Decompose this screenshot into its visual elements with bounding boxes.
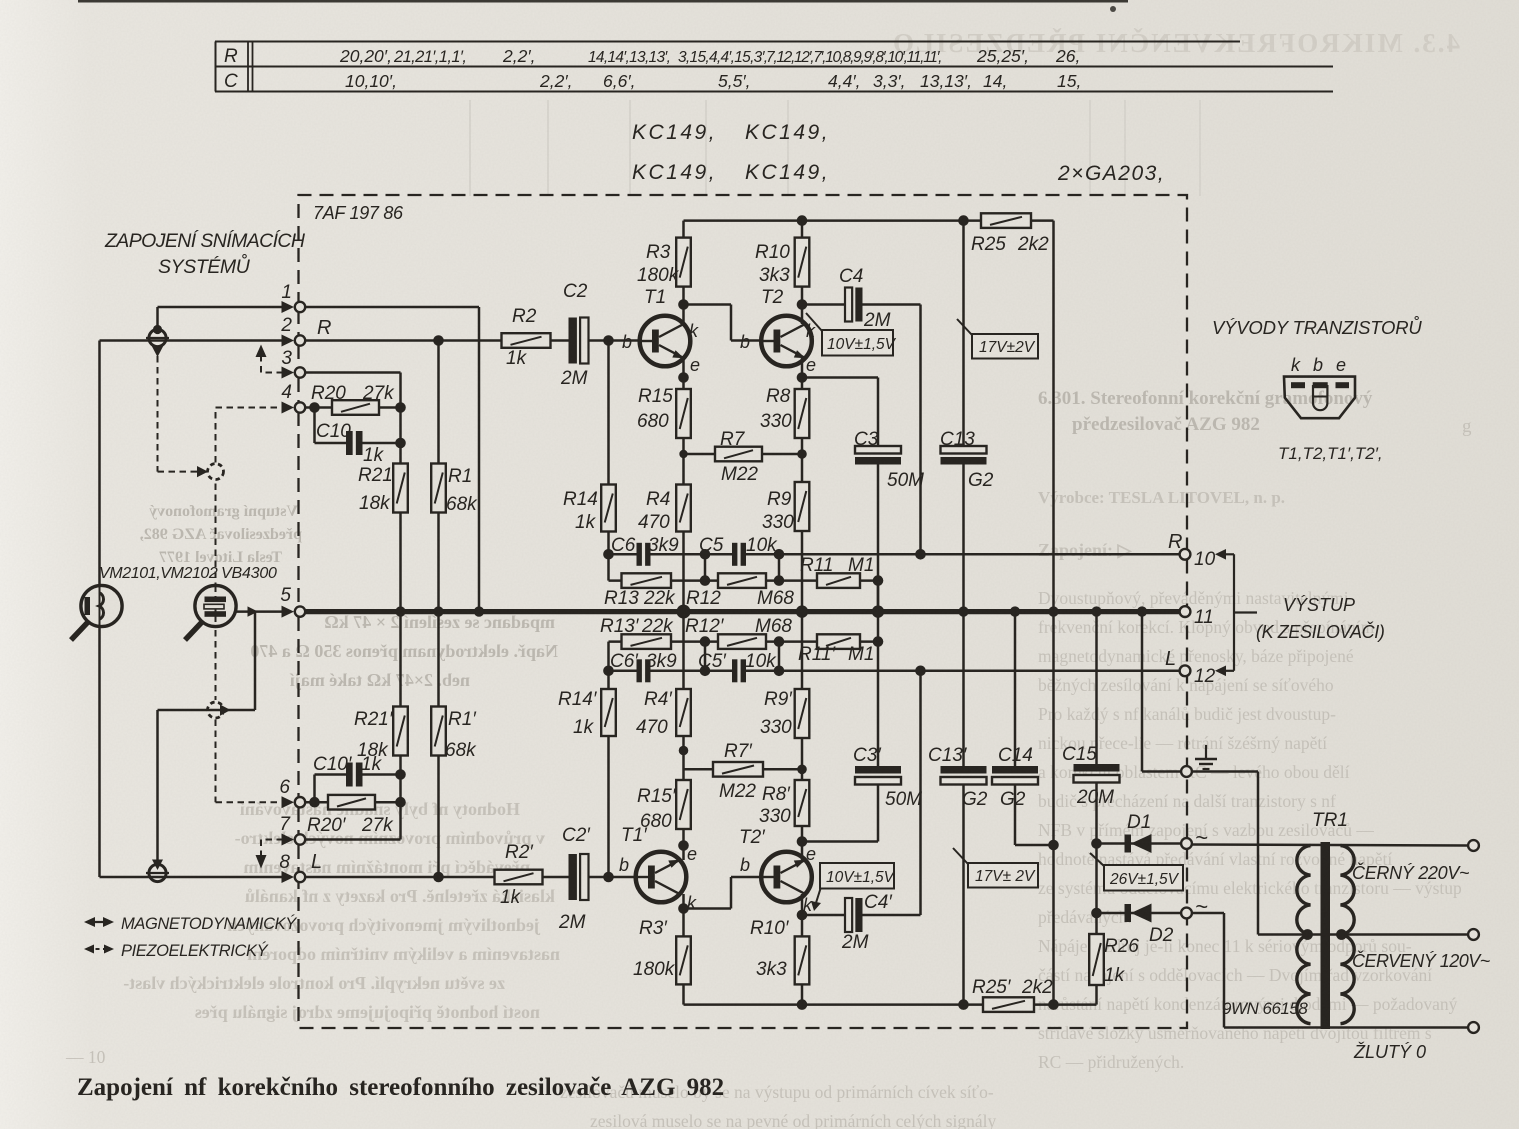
wire L jack up and over to terminal 5 wire [156,710,159,861]
resistor R12' M68 [705,640,779,643]
wire C4' up to L output line [919,671,922,915]
node T2 collector junction [797,299,808,310]
wire C13' down to bottom rail [962,785,965,1005]
wire ground to transformer centre tap [1192,770,1258,773]
capacitor C13' G2 [962,612,965,766]
capacitor C3 50M [855,446,901,465]
common bus wire (thick) [305,609,1183,614]
wire T1 collector to T2 base [684,303,732,306]
resistor R2 1k [502,333,551,348]
resistor R4 470 [676,485,691,532]
transformer centre tap 120V [1258,933,1468,936]
capacitor C5 10k [732,543,746,566]
wire (dashed) VB4300 top to piezo connector [215,481,217,589]
capacitor C2 2M [569,318,589,364]
node R10 top on rail [797,215,808,226]
node C13 top on rail [958,215,969,226]
measurement box 10V +/-1.5V (T2' collector) [815,887,821,906]
wire terminal 1 row [158,306,284,309]
node C5 left junction [700,549,711,560]
resistor R15 680 [676,389,691,438]
node R7' junctions [679,746,689,756]
wire R15 to R4 column [682,437,685,612]
node D2 anode junction [1091,908,1102,919]
resistor R11 M1 [779,579,878,582]
resistor R8 330 [795,389,810,438]
wire (dashed) terminal 7 stub with down arrow [261,839,283,841]
measurement box 26V +/-1.5V [1090,853,1104,866]
wire VM pickup bottom to terminal 8 row [98,626,101,877]
node R11' right junction [873,636,884,647]
node C5' left junction [700,666,711,677]
wire terminal 7 to R20' right node [305,838,401,841]
resistor R1' 68k [437,612,440,877]
node T2 emitter junction [797,372,808,383]
node terminal4/R20/C10 left junction [309,402,320,413]
resistor R10 3k3 [801,221,804,238]
capacitor C15 20M [1095,612,1098,764]
terminal 3 [282,367,306,379]
wire (dashed) piezo L connector to terminal 6 [215,720,217,803]
legend magnetodynamic arrow [84,917,114,927]
connector symbol (R channel jack) [146,325,169,357]
resistor R3' 180k [676,936,691,984]
node terminal6/R20'/C10' left junction [309,797,320,808]
wire (dashed) connector to piezo node [157,356,159,472]
wire D2 terminal to transformer bottom [1192,912,1224,915]
terminal 7 [282,834,306,846]
node R10' bottom on rail [797,999,808,1010]
terminal 220V [1468,840,1479,851]
resistor R20 27k [332,400,379,415]
resistor R14' 1k [607,671,610,877]
terminal 10 (R output) [1180,549,1191,560]
node T1 collector junction [678,299,689,310]
wire terminal 6 row [305,801,401,804]
node bus junctions [395,606,405,616]
wire (dashed) VB4300 bottom to piezo L connector [215,630,217,700]
resistor R20' 27k [328,795,375,810]
node T1 emitter junction [678,372,689,383]
measurement box 17V +/-2V (upper) [957,319,972,335]
legend piezoelectric arrow [84,945,114,954]
terminal 0V [1468,1022,1479,1033]
connector symbol (piezo L) [208,702,231,718]
wire C14 to 17V rail [1014,785,1017,846]
node T1' collector junction [678,903,689,914]
wire terminal 4 row [305,406,401,409]
wire VM pickup top to terminal 2 row [98,341,101,587]
transistor T1 [640,316,691,367]
wire R15' to R4' column [682,612,685,780]
resistor R21' 18k [399,612,402,803]
wire (dashed) terminal 3 stub with up arrow [261,372,283,374]
node T2' collector junction [797,910,808,921]
wire [78,0,1128,3]
capacitor C13 G2 [962,221,965,446]
terminal 2 [282,335,306,347]
capacitor C6 3k9 [637,543,651,566]
wire bus to ground terminal [1141,612,1144,772]
primary (right) winding [1341,846,1355,1024]
capacitor C5' 10k [732,659,746,682]
measurement box 17V +/-2V (lower) [953,848,968,864]
R feedback line (wire-A) to output 10 [609,553,637,556]
node R20'/C10'/R21'/terminal7 junction [395,797,406,808]
node T1' emitter junction [678,840,689,851]
pickup VB4300 (piezoelectric cartridge) [185,585,236,640]
node wire-A left junction (R14/C6/R13) [603,549,614,560]
resistor R25' 2k2 [983,997,1034,1012]
node C13' bottom on rail [958,999,969,1010]
ground terminal [1181,766,1192,777]
terminal 12 (L output) [1180,665,1191,676]
capacitor C3' 50M [855,766,901,785]
node C14/17V rail junction [1048,840,1059,851]
connector symbol (piezo R, dashed) [197,464,224,480]
wire supply drop right (17V rail) [1052,221,1055,1005]
terminal D1 (~) [1181,838,1192,849]
supply rail top [684,219,1054,222]
wire C3 to feedback node [877,465,880,612]
node C5' right junction [774,666,785,677]
output bracket with arrows [1215,549,1257,676]
wire terminal 1 to bus drop [305,306,479,309]
wire C3' up to feedback node [877,642,880,766]
diode D1 [1097,842,1182,845]
resistor R13' 22k [607,642,610,671]
wire C13 down to bus [962,465,965,612]
resistor R8' 330 [795,780,810,826]
terminal 5 [282,606,306,618]
supply rail bottom [684,1003,1097,1006]
node C4' output junction on L line [915,666,926,677]
transistor T2' (mirrored) [761,852,812,903]
wire feedback column through bus [877,581,880,642]
node R25' left junction [1048,999,1059,1010]
wire terminal 2 (R) row to T1 base [305,339,569,342]
transformer bottom line to 0V terminal [1224,1026,1468,1029]
transistor T2 [761,316,812,367]
node C2/T1 base/R14 junction [603,335,614,346]
node T2' emitter junction [797,836,808,847]
resistor R21 18k [399,408,402,612]
capacitor C10' 1k [313,775,316,803]
resistor R9 330 [801,437,804,612]
connector symbol (L channel jack) [146,860,169,882]
capacitor C6' 3k9 [637,659,651,682]
diode D2 [1097,912,1182,915]
node D1 anode junction [1091,838,1102,849]
resistor R14 1k [607,341,610,555]
wire VB4300 right to terminal 5 [237,610,284,613]
capacitor C2' 2M [569,854,589,900]
terminal 11 (common output) [1180,606,1191,617]
wire terminal 3 to R20 right node [305,371,401,374]
wire C4 down to R output line [919,305,922,555]
resistor R7' M22 [684,768,803,771]
terminal 6 [282,796,306,808]
terminal 1 [282,301,306,313]
node C4 output junction on R line [915,549,926,560]
resistor R1 68k [437,341,440,612]
resistor R2' 1k [305,876,569,879]
terminal 8 [282,871,306,883]
wire (dashed) piezo connector to terminal 4 [215,408,217,463]
node C5 right junction [774,549,785,560]
wire piezo L connector right then up to terminal-5 wire [254,612,257,710]
wire C15 to D1 junction [1095,783,1098,935]
L feedback line (wire-B) to output 12 [609,670,637,673]
measurement box 10V +/-1.5V (T2 collector) [806,313,822,331]
capacitor C10 1k [313,408,316,444]
node R11 right junction [873,575,884,586]
pickup VM2101/VM2102 (magnetodynamic cartridge) [71,585,122,640]
node component index table [215,42,1333,93]
resistor R12 M68 [705,579,779,582]
terminal D2 (~) [1181,908,1192,919]
resistor R7 M22 [684,453,803,456]
resistor R13 22k [607,554,610,580]
wire T2 emitter to C3 [802,376,878,379]
resistor R25 2k2 [981,213,1031,228]
resistor R4' 470 [676,689,691,736]
node wire-B left junction (R14'/C6'/R13') [603,666,614,677]
wire T1' collector to T2' base [684,907,732,910]
resistor R10' 3k3 [795,936,810,984]
node R7 junctions [679,450,687,458]
ground symbol [1195,745,1217,769]
resistor R11' M1 [779,640,878,643]
resistor R9' 330 [801,612,804,780]
transformer core [1321,842,1331,1029]
resistor R26 1k [1089,934,1104,985]
node R1' bottom junction [433,872,444,883]
resistor R3 180k [682,221,685,238]
capacitor C4 2M (R output coupling) [802,303,845,306]
resistor R15' 680 [676,780,691,829]
node C2'/T1' base/R14' junction [603,872,614,883]
wire T2' emitter to C3' [802,840,878,843]
terminal 4 [282,402,306,414]
node R20/C10/R21/terminal3 junction [395,402,406,413]
capacitor C4' 2M (L output coupling) [802,914,845,917]
node R1 top junction [433,335,444,346]
module outline 7AF 19786 (dashed box) [299,195,1188,1028]
capacitor C14 G2 [1014,612,1017,766]
transistor T1' (mirrored) [636,852,687,903]
